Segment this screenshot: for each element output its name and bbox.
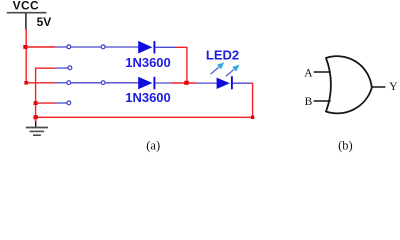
or-gate U1 body [326, 56, 372, 113]
or-gate input line A [314, 71, 331, 73]
svg-text:1N3600: 1N3600 [125, 55, 171, 70]
wire row4 red [36, 102, 56, 104]
switch S1 alt pin circle [68, 66, 72, 70]
switch S2 lever [71, 82, 101, 84]
wire LED return right side [36, 83, 253, 117]
svg-text:(b): (b) [338, 138, 353, 152]
switch S2 alt pin circle [67, 101, 71, 105]
svg-text:(a): (a) [146, 138, 160, 152]
switch S1 lever [71, 46, 101, 48]
wire row3 red [26, 82, 55, 84]
svg-text:LED2: LED2 [206, 47, 239, 62]
wire row1 blue to diode [105, 46, 138, 48]
wire row1 red [26, 46, 55, 48]
switch S2 pin line [55, 82, 66, 84]
wire row3 red through tee [172, 82, 197, 84]
LED pin right [233, 82, 251, 84]
or-gate output line [372, 86, 386, 88]
node corner row3 [24, 81, 28, 85]
svg-text:1N3600: 1N3600 [125, 90, 171, 105]
switch S1 pin line [55, 46, 66, 48]
wire row3 blue to diode [105, 82, 138, 84]
switch S1 alt pin line [55, 67, 68, 69]
LED pin left [196, 82, 216, 84]
switch S2 pin circle right [101, 81, 105, 85]
diode D2 pin right [155, 82, 171, 84]
svg-text:5V: 5V [37, 15, 52, 29]
wire ground stub [35, 117, 37, 123]
switch S1 pin circle right [101, 45, 105, 49]
svg-text:VCC: VCC [13, 0, 39, 13]
node return junction left [34, 115, 38, 119]
switch S1 pin circle left [67, 45, 71, 49]
LED cathode bar [231, 76, 233, 89]
diode D1 cathode bar [153, 41, 155, 54]
LED arrow 1 [211, 62, 225, 74]
diode D2 cathode bar [153, 77, 155, 90]
LED triangle [217, 78, 230, 89]
svg-text:A: A [304, 67, 313, 79]
diode D1 pin right [155, 46, 176, 48]
diode D1 triangle [138, 41, 152, 54]
diode D2 triangle [138, 77, 152, 90]
LED arrow 2 [226, 65, 240, 77]
svg-text:B: B [305, 96, 313, 108]
wire row1 red to corner [176, 47, 187, 83]
switch S2 alt pin line [55, 102, 66, 104]
switch S2 pin circle left [67, 81, 71, 85]
node return corner [251, 116, 254, 119]
wire: main VCC vertical [25, 29, 27, 83]
wire row2 from mid vertical [36, 68, 56, 122]
node junction row1 [23, 45, 27, 49]
or-gate input line B [314, 100, 331, 102]
power symbol VCC [7, 0, 47, 29]
node tee junction [184, 81, 188, 85]
node row4 junction [34, 101, 38, 105]
svg-text:Y: Y [389, 81, 398, 93]
ground [26, 122, 48, 136]
